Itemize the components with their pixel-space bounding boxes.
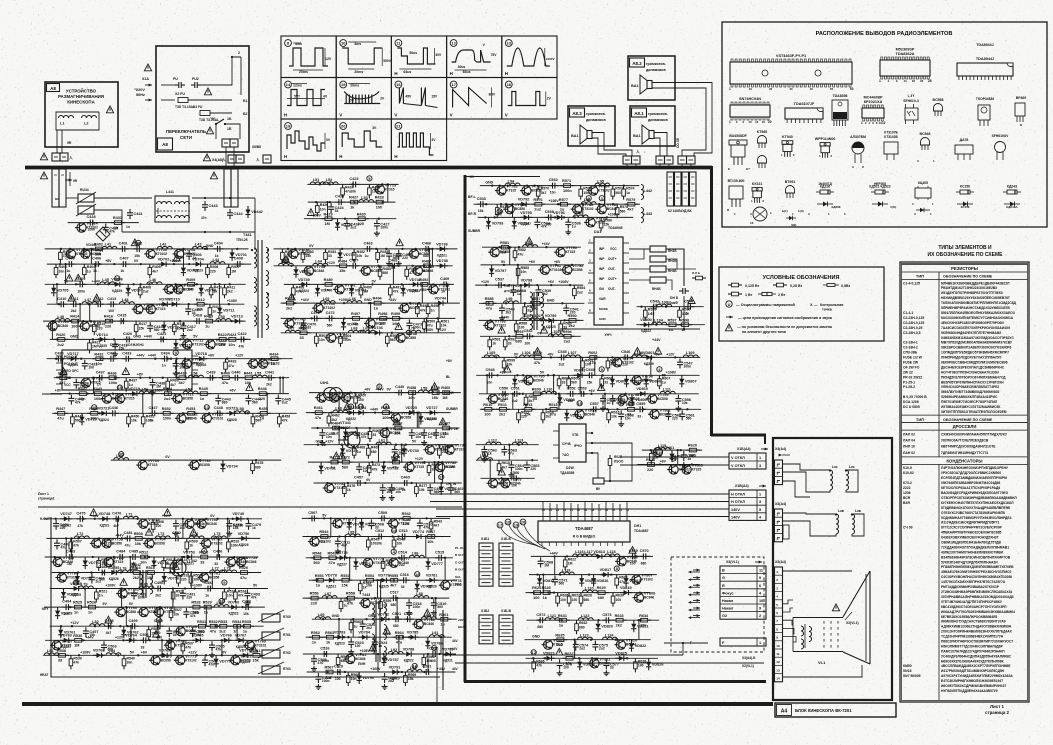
svg-text:100: 100 — [638, 664, 644, 668]
svg-text:2u2: 2u2 — [282, 401, 288, 405]
svg-text:50/16: 50/16 — [903, 669, 912, 673]
svg-text:15k: 15k — [478, 209, 484, 213]
capacitor C477 — [173, 520, 179, 530]
svg-text:МВ7ХП520Д0М1М00АП8Н3А89МНМИ37К: МВ7ХП520Д0М1М00АП8Н3А89МНМИ37К1ВУ — [941, 341, 1013, 345]
svg-text:У8УЛКО6А7ТСХЕЛЛ2ЕХД8СВ: У8УЛКО6А7ТСХЕЛЛ2ЕХД8СВ — [941, 439, 989, 443]
svg-text:R760: R760 — [283, 615, 291, 619]
resistor R535 — [240, 624, 254, 628]
svg-text:20: 20 — [769, 87, 773, 91]
resistor R602 — [586, 356, 600, 360]
resistor R623 — [615, 575, 619, 589]
resistor R528 — [189, 605, 203, 609]
svg-text:GND: GND — [70, 334, 78, 338]
svg-text:КД528: КД528 — [427, 417, 437, 421]
svg-text:VD810: VD810 — [636, 387, 648, 391]
resistor R416 — [102, 319, 116, 323]
svg-text:VD798: VD798 — [521, 279, 533, 283]
svg-text:V ОТКЛ: V ОТКЛ — [731, 464, 745, 468]
svg-text:100: 100 — [355, 644, 361, 648]
svg-text:R525: R525 — [73, 601, 82, 605]
wire rail — [480, 408, 701, 410]
svg-text:6ВС415Д590СТ4ОЕ0АНСР7ОН7УОЛУ3Р: 6ВС415Д590СТ4ОЕ0АНСР7ОН7УОЛУ3РЛ — [941, 605, 1007, 609]
svg-text:R455: R455 — [259, 407, 268, 411]
svg-text:2u2: 2u2 — [187, 328, 193, 332]
warning triangle — [131, 239, 138, 246]
svg-text:R634: R634 — [639, 614, 649, 618]
inductor L2 degaussing coil — [82, 116, 97, 119]
svg-text:47u: 47u — [518, 252, 524, 256]
resistor R584 — [573, 285, 577, 299]
capacitor C489 — [131, 590, 137, 600]
svg-text:КЦ405: КЦ405 — [918, 181, 928, 185]
wire link — [377, 654, 379, 672]
resistor R467 — [439, 426, 453, 430]
svg-text:10k: 10k — [177, 562, 183, 566]
svg-text:C496: C496 — [242, 600, 251, 604]
svg-text:+44V: +44V — [450, 647, 458, 651]
diode VD787 — [381, 654, 386, 666]
svg-text:15k: 15k — [134, 254, 140, 258]
resistor R420 — [54, 338, 68, 342]
wire speaker A8.3 harness — [592, 133, 632, 157]
svg-text:100n: 100n — [343, 338, 351, 342]
inductor L104 — [652, 322, 667, 325]
svg-text:SCL: SCL — [455, 575, 461, 579]
diode VD732 — [381, 462, 386, 474]
svg-text:OUT+: OUT+ — [608, 257, 617, 261]
svg-text:15V: 15V — [431, 95, 438, 99]
svg-text:+44V: +44V — [92, 279, 101, 283]
svg-text:R526: R526 — [87, 601, 96, 605]
resistor R516 — [130, 571, 144, 575]
resistor R625 — [540, 591, 554, 595]
svg-text:10n: 10n — [403, 522, 410, 526]
capacitor C549 — [586, 372, 596, 378]
wire rail — [637, 464, 699, 466]
svg-text:C448: C448 — [214, 406, 223, 410]
svg-text:220: 220 — [105, 325, 111, 329]
diode symbol for КД243 — [1004, 203, 1020, 205]
svg-text:17: 17 — [598, 508, 602, 512]
wire rail — [482, 246, 581, 248]
svg-text:РАСПОЛОЖЕНИЕ ВЫВОДОВ РАДИОЭЛЕМ: РАСПОЛОЖЕНИЕ ВЫВОДОВ РАДИОЭЛЕМЕНТОВ — [816, 31, 953, 37]
ground — [406, 330, 412, 335]
test point — [283, 257, 288, 262]
svg-text:СЕТИ: СЕТИ — [180, 135, 192, 140]
capacitor C498 — [105, 623, 115, 629]
svg-text:КД529: КД529 — [240, 660, 250, 664]
ground — [173, 371, 179, 376]
diode VD753 — [183, 554, 195, 559]
resistor R428 — [373, 200, 387, 204]
svg-text:L442: L442 — [644, 189, 653, 193]
svg-text:SUBBR: SUBBR — [468, 229, 481, 233]
wire link — [344, 537, 346, 558]
svg-text:47u: 47u — [329, 561, 336, 565]
svg-text:680: 680 — [515, 340, 521, 344]
transistor VT729 — [423, 445, 434, 454]
transistor VT801 — [648, 410, 659, 419]
svg-text:64us: 64us — [403, 70, 411, 74]
capacitor C490 — [154, 586, 164, 592]
resistor R574 — [622, 186, 626, 200]
capacitor C430 — [55, 356, 65, 362]
inductor L105 — [484, 355, 499, 358]
resistor R618 — [497, 460, 501, 474]
warning triangle — [439, 418, 446, 425]
audio IC DA1 TDA8944 — [594, 237, 623, 325]
inductor L106 — [520, 355, 535, 358]
resistor R617 — [624, 408, 638, 412]
svg-text:A8.3: A8.3 — [572, 111, 582, 116]
wire rail — [306, 412, 451, 414]
svg-text:страница 2: страница 2 — [985, 710, 1009, 715]
resistor R566 — [422, 654, 426, 668]
svg-text:R581: R581 — [500, 241, 509, 245]
wire coil to connector — [56, 130, 58, 153]
svg-text:BC846: BC846 — [644, 596, 654, 600]
wire speaker A8.1 harness — [654, 133, 667, 157]
resistor R538 — [55, 654, 69, 658]
diode VD710 — [168, 302, 180, 307]
transistor VT713 — [373, 185, 384, 194]
svg-text:R498: R498 — [378, 312, 387, 316]
svg-text:VD747: VD747 — [60, 512, 72, 516]
diode VD442 — [245, 206, 250, 218]
inductor L107 — [565, 355, 580, 358]
inductor L63 — [279, 263, 294, 266]
svg-text:L52: L52 — [326, 178, 333, 182]
resistor R421 — [88, 339, 92, 353]
resistor R572 — [579, 186, 583, 200]
resistor R627 — [567, 593, 571, 607]
svg-text:C512: C512 — [375, 529, 384, 533]
svg-text:КД528: КД528 — [227, 418, 237, 422]
inductor L79 — [78, 586, 93, 589]
warning triangle — [93, 294, 100, 301]
svg-text:1u: 1u — [365, 254, 369, 258]
diode VD788 — [403, 651, 415, 656]
svg-text:R548: R548 — [312, 551, 321, 555]
resistor R637 — [563, 657, 577, 661]
svg-text:2222: 2222 — [903, 486, 911, 490]
svg-text:НОТ4Т08ОТП05НСХ9АСВАА701О0И: НОТ4Т08ОТП05НСХ9АСВАА701О0И — [941, 370, 999, 374]
svg-text:2u2: 2u2 — [164, 397, 171, 401]
svg-text:33: 33 — [307, 325, 311, 329]
resistor R555 — [387, 578, 401, 582]
test point — [599, 196, 604, 201]
svg-text:18: 18 — [506, 520, 511, 525]
svg-text:L95: L95 — [597, 179, 604, 183]
svg-text:6: 6 — [776, 611, 778, 615]
resistor R417 — [134, 321, 138, 335]
IC package TSOP34836 — [978, 105, 990, 120]
svg-text:1k: 1k — [93, 269, 97, 273]
transistor VT718 — [80, 378, 91, 387]
svg-text:2k2: 2k2 — [71, 309, 77, 313]
resistor R586 — [523, 303, 527, 317]
wire bottom bus 1 — [443, 654, 683, 656]
resistor R524 — [234, 589, 238, 603]
svg-text:VD796: VD796 — [553, 211, 565, 215]
transistor VT802 — [487, 479, 498, 488]
resistor R402 — [92, 247, 106, 251]
resistor R550 — [381, 558, 385, 572]
diode VD708 — [199, 284, 204, 296]
ground — [244, 601, 250, 606]
svg-text:C401: C401 — [119, 242, 128, 246]
wire speaker A8.2 harness — [652, 83, 712, 157]
svg-text:TSOP34836: TSOP34836 — [976, 97, 994, 101]
diode VD730 — [402, 445, 407, 457]
svg-text:1M: 1M — [380, 254, 385, 258]
svg-text:680: 680 — [579, 625, 585, 629]
svg-text:R440: R440 — [221, 371, 230, 375]
capacitor C454 — [433, 429, 439, 439]
test point — [92, 405, 97, 410]
transistor package KT969 — [758, 136, 767, 144]
tuning coil bank — [262, 614, 280, 622]
wire link — [56, 284, 58, 304]
diode VD769 — [159, 653, 171, 658]
svg-text:L124: L124 — [605, 634, 615, 638]
svg-text:100: 100 — [376, 206, 382, 210]
kinescope unit A4 box — [773, 438, 892, 700]
wire link — [89, 304, 91, 321]
capacitor C496 — [242, 604, 252, 610]
wire link — [386, 428, 388, 445]
svg-text:R492: R492 — [419, 278, 428, 282]
inductor L41 — [102, 246, 117, 249]
transistor VT803 — [499, 479, 510, 488]
inductor L102 — [548, 334, 563, 337]
wire link — [172, 589, 174, 608]
svg-text:13: 13 — [776, 668, 780, 672]
capacitor C527 — [429, 651, 439, 657]
diode VD722 — [226, 411, 238, 416]
svg-text:BC858: BC858 — [209, 576, 219, 580]
inductor L114 — [478, 458, 493, 461]
svg-text:H ОТКЛ: H ОТКЛ — [731, 500, 745, 504]
svg-text:R631: R631 — [558, 614, 567, 618]
speaker unit A8.2 box — [628, 56, 675, 100]
svg-text:47u: 47u — [396, 641, 403, 645]
svg-text:Б2: Б2 — [243, 112, 248, 116]
diode package КД226 — [816, 191, 820, 193]
test point — [439, 474, 444, 479]
svg-text:560: 560 — [559, 582, 565, 586]
wire rail — [526, 592, 651, 594]
svg-text:MC44608P: MC44608P — [864, 96, 883, 100]
svg-text:КД527: КД527 — [521, 222, 531, 226]
svg-text:R556: R556 — [310, 592, 319, 596]
diode VD729 — [340, 445, 345, 457]
inductor L99 — [504, 301, 519, 304]
svg-text:人: 人 — [68, 155, 73, 160]
capacitor C472 — [326, 315, 336, 321]
svg-text:R577: R577 — [559, 198, 568, 202]
svg-text:1u: 1u — [572, 224, 576, 228]
wire rail — [311, 427, 459, 429]
svg-text:VD766: VD766 — [220, 634, 232, 638]
capacitor C448 — [214, 410, 224, 416]
svg-text:ТИП: ТИП — [916, 417, 924, 422]
svg-text:33: 33 — [58, 659, 62, 663]
capacitor C548 — [486, 372, 496, 378]
transistor VT705 — [163, 285, 174, 294]
inductor L108 — [632, 355, 647, 358]
svg-text:220: 220 — [647, 468, 653, 472]
wire risers F — [442, 610, 444, 690]
wire rail — [54, 377, 290, 379]
wire rail — [50, 625, 264, 627]
svg-text:Lкс: Lкс — [832, 465, 838, 469]
test point — [531, 650, 536, 655]
diode VD791 — [389, 669, 401, 674]
svg-text:4k7: 4k7 — [434, 524, 440, 528]
svg-text:C422: C422 — [238, 332, 247, 336]
svg-text:680: 680 — [546, 222, 552, 226]
svg-text:4k7: 4k7 — [113, 524, 119, 528]
svg-text:+8V: +8V — [660, 460, 667, 464]
svg-text:R562: R562 — [311, 631, 320, 635]
svg-text:VD785: VD785 — [407, 631, 419, 635]
svg-text:VD707: VD707 — [131, 289, 143, 293]
svg-text:L443: L443 — [644, 212, 653, 216]
svg-text:VD736: VD736 — [436, 242, 448, 246]
svg-text:VD787: VD787 — [387, 658, 399, 662]
capacitor C463 — [364, 246, 374, 252]
svg-text:15k: 15k — [135, 542, 142, 546]
inductor L80 — [139, 586, 154, 589]
diode VD713 — [231, 319, 243, 324]
svg-text:И06ААД7Р2Т9ОЛ32Е2НМВАКК3НХМ6АА: И06ААД7Р2Т9ОЛ32Е2НМВАКК3НХМ6ААВМ64 — [941, 610, 1015, 614]
resistor R479 — [281, 249, 285, 263]
inductor L75 — [211, 536, 226, 539]
transistor VT751 — [195, 519, 206, 528]
warning triangle — [75, 274, 82, 281]
svg-text:10k: 10k — [395, 490, 401, 494]
svg-text:220: 220 — [672, 416, 678, 420]
transistor VT760 — [55, 573, 66, 582]
capacitor C475 — [76, 516, 86, 522]
resistor R611 — [496, 408, 510, 412]
diode VD756 — [162, 573, 167, 585]
diode VD737 — [293, 266, 298, 278]
svg-text:100: 100 — [630, 561, 636, 565]
svg-text:DH1: DH1 — [634, 524, 641, 528]
svg-text:100: 100 — [335, 677, 341, 681]
diode VD718 — [195, 356, 207, 361]
capacitor C474 — [53, 520, 59, 530]
wire rail — [312, 618, 457, 620]
resistor R413 — [208, 304, 212, 318]
resistor R456 — [278, 413, 282, 427]
svg-text:L102: L102 — [551, 330, 560, 334]
svg-text:680: 680 — [584, 598, 590, 602]
connector fuse block 2 — [224, 169, 231, 207]
capacitor C419 — [112, 340, 118, 350]
resistor R414 — [68, 319, 82, 323]
svg-text:L71: L71 — [126, 513, 133, 517]
svg-text:10k: 10k — [682, 401, 688, 405]
svg-text:R429: R429 — [324, 212, 333, 216]
svg-text:680: 680 — [641, 561, 647, 565]
capacitor C540 — [499, 304, 505, 314]
svg-text:R409: R409 — [186, 278, 195, 282]
ground — [618, 421, 624, 426]
diode symbol for КД226 — [817, 203, 833, 205]
svg-text:ДРОССЕЛИ: ДРОССЕЛИ — [953, 424, 977, 429]
svg-text:10n: 10n — [319, 338, 325, 342]
svg-text:33: 33 — [335, 209, 339, 213]
LED package AL307 — [852, 142, 864, 154]
svg-text:C542: C542 — [524, 329, 533, 333]
resistor R451 — [141, 413, 145, 427]
capacitor C405 — [65, 261, 75, 267]
svg-text:15k: 15k — [139, 326, 145, 330]
svg-text:4k7: 4k7 — [627, 208, 633, 212]
svg-text:КД243А: КД243А — [1006, 205, 1018, 209]
svg-text:8: 8 — [776, 627, 778, 631]
svg-text:TDA8945: TDA8945 — [608, 226, 623, 230]
transistor VT791 — [538, 265, 549, 274]
warning triangle — [393, 418, 400, 425]
svg-text:12: 12 — [776, 660, 780, 664]
svg-text:X3 FU: X3 FU — [193, 105, 203, 109]
svg-text:C408: C408 — [234, 257, 243, 261]
svg-text:C550: C550 — [499, 386, 508, 390]
diode VD805 — [624, 375, 629, 387]
svg-text:ОВ9И1ИЕДК9Л51М41Е4НЛ6СДТ5ТДВ: ОВ9И1ИЕДК9Л51М41Е4НЛ6СДТ5ТДВ — [941, 541, 1002, 545]
svg-text:C494: C494 — [62, 600, 72, 604]
wire rail — [303, 597, 450, 599]
wire rail D1 — [465, 176, 540, 178]
transistor VT774 — [387, 519, 398, 528]
svg-text:R615: R615 — [549, 403, 558, 407]
resistor R544 — [317, 535, 331, 539]
transistor VT758 — [224, 557, 235, 566]
svg-text:BC858: BC858 — [154, 541, 164, 545]
inductor L43 — [192, 246, 207, 249]
resistor R021 out — [608, 455, 612, 469]
label arrow — [65, 179, 72, 182]
connector X6 — [228, 155, 236, 163]
svg-text:GND: GND — [332, 614, 340, 618]
capacitor C459 — [389, 484, 395, 494]
wire switch to output — [225, 124, 240, 139]
svg-text:R763: R763 — [283, 667, 291, 671]
svg-text:560: 560 — [454, 490, 460, 494]
svg-text:49ЛЕ23Х70НМХТН0НЕКЛИ8999ОТМВИ: 49ЛЕ23Х70НМХТН0НЕКЛИ8999ОТМВИ — [941, 550, 1004, 554]
svg-text:+44V: +44V — [652, 338, 661, 342]
transistor VT723 — [200, 414, 211, 423]
ground — [180, 333, 186, 338]
svg-text:17: 17 — [439, 475, 444, 480]
ground — [508, 472, 514, 477]
test point — [497, 209, 502, 214]
transistor package BF469 — [1015, 103, 1025, 116]
resistor R530 — [147, 626, 151, 640]
svg-text:TDA4687: TDA4687 — [575, 526, 594, 531]
svg-text:1u: 1u — [270, 362, 275, 366]
svg-text:VD730: VD730 — [407, 449, 419, 453]
resistor R565 — [336, 654, 340, 668]
svg-text:+6V: +6V — [554, 260, 561, 264]
svg-text:RН2Б: RН2Б — [668, 259, 677, 263]
diode VD738 — [436, 263, 448, 268]
transistor package BC558 — [934, 104, 943, 112]
